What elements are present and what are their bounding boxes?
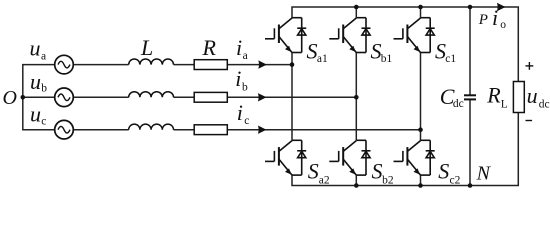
svg-text:R: R xyxy=(202,35,217,60)
svg-text:i: i xyxy=(237,100,243,125)
svg-text:dc: dc xyxy=(453,98,464,110)
svg-text:a1: a1 xyxy=(317,53,328,65)
svg-text:b: b xyxy=(242,82,248,94)
svg-text:u: u xyxy=(30,35,41,60)
svg-text:N: N xyxy=(476,163,492,185)
svg-text:b: b xyxy=(41,83,47,95)
svg-text:i: i xyxy=(492,5,498,30)
svg-text:P: P xyxy=(478,12,488,28)
svg-text:dc: dc xyxy=(539,98,550,110)
svg-text:S: S xyxy=(372,159,383,184)
svg-text:u: u xyxy=(527,83,538,108)
svg-text:c: c xyxy=(41,115,46,127)
svg-text:c2: c2 xyxy=(450,174,461,186)
svg-text:R: R xyxy=(486,82,501,107)
svg-text:c: c xyxy=(244,115,249,127)
svg-text:a: a xyxy=(41,50,46,62)
svg-text:a: a xyxy=(243,50,248,62)
svg-text:S: S xyxy=(438,159,449,184)
svg-text:a2: a2 xyxy=(319,174,330,186)
svg-text:L: L xyxy=(140,35,153,60)
svg-text:O: O xyxy=(3,87,17,109)
svg-text:b2: b2 xyxy=(382,174,394,186)
svg-text:u: u xyxy=(30,102,41,127)
svg-text:i: i xyxy=(235,66,241,91)
svg-text:u: u xyxy=(30,69,41,94)
svg-text:c1: c1 xyxy=(445,53,456,65)
svg-text:i: i xyxy=(236,35,242,60)
svg-text:o: o xyxy=(500,19,506,31)
svg-text:S: S xyxy=(307,39,318,64)
svg-text:b1: b1 xyxy=(381,53,393,65)
svg-text:S: S xyxy=(308,159,319,184)
svg-text:L: L xyxy=(501,98,508,110)
